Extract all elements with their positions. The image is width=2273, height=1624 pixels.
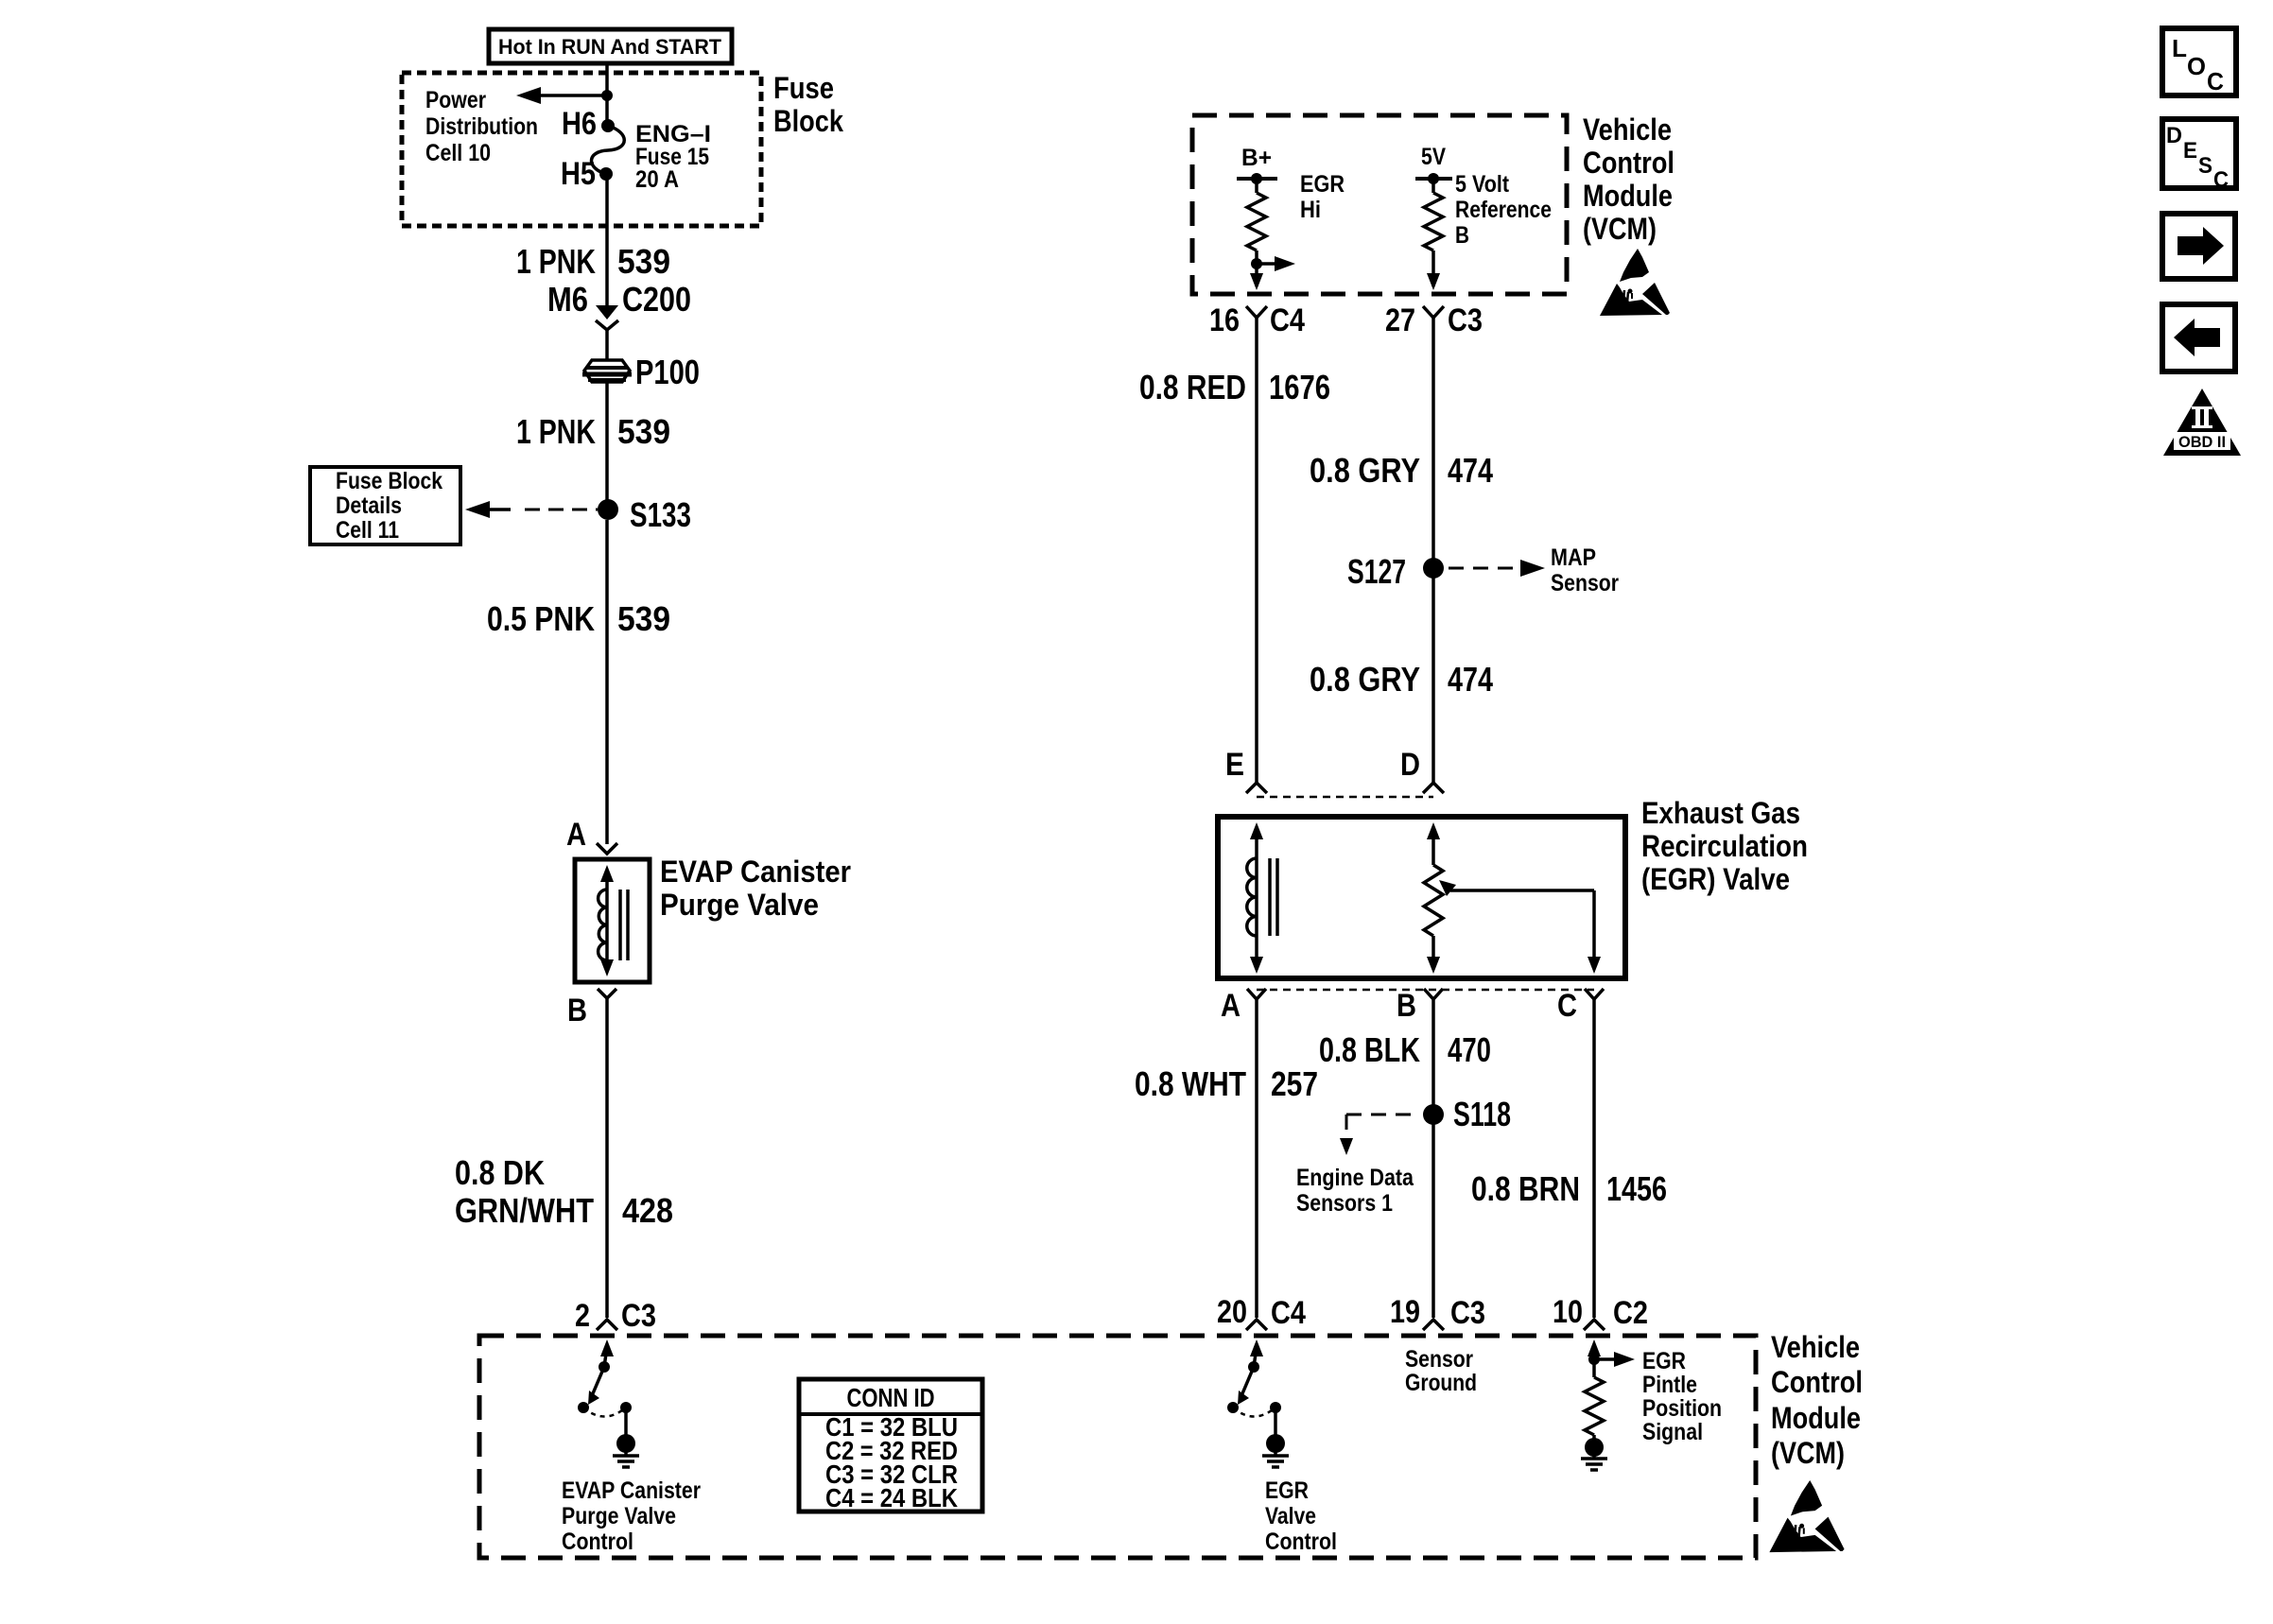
svg-text:(EGR) Valve: (EGR) Valve bbox=[1641, 862, 1790, 896]
svg-text:20 A: 20 A bbox=[635, 166, 679, 193]
svg-text:539: 539 bbox=[617, 412, 670, 451]
wire: C200 to grommet P100 bbox=[605, 330, 609, 362]
svg-text:Purge Valve: Purge Valve bbox=[562, 1503, 676, 1529]
wire: EGR C to VCM 10 bbox=[1592, 999, 1596, 1318]
svg-text:OBD II: OBD II bbox=[2178, 433, 2226, 451]
svg-text:0.8 RED: 0.8 RED bbox=[1139, 368, 1246, 406]
EGR valve box bbox=[1218, 817, 1625, 978]
svg-text:(VCM): (VCM) bbox=[1771, 1436, 1845, 1470]
ESD sensitivity icon (top) bbox=[1620, 249, 1649, 282]
svg-text:EGR: EGR bbox=[1300, 171, 1345, 198]
svg-text:Fuse Block: Fuse Block bbox=[336, 468, 442, 494]
svg-text:Hot In RUN And START: Hot In RUN And START bbox=[498, 35, 722, 59]
svg-text:5 Volt: 5 Volt bbox=[1455, 171, 1510, 198]
svg-text:20: 20 bbox=[1217, 1294, 1247, 1330]
icon: previous arrow button bbox=[2162, 304, 2235, 371]
svg-text:Engine Data: Engine Data bbox=[1296, 1165, 1414, 1191]
svg-text:Sensor: Sensor bbox=[1405, 1346, 1473, 1373]
driver switch: EGR valve control bbox=[1250, 1339, 1263, 1356]
svg-text:Details: Details bbox=[336, 492, 402, 519]
branch arrow to power distribution bbox=[535, 94, 607, 97]
svg-text:Module: Module bbox=[1583, 179, 1673, 213]
svg-text:1676: 1676 bbox=[1269, 368, 1330, 406]
svg-text:5V: 5V bbox=[1421, 144, 1446, 170]
svg-text:539: 539 bbox=[617, 242, 670, 281]
svg-text:0.8 DK: 0.8 DK bbox=[455, 1153, 545, 1192]
splice S133 bbox=[598, 499, 618, 520]
svg-text:Sensors 1: Sensors 1 bbox=[1296, 1190, 1393, 1217]
svg-text:(VCM): (VCM) bbox=[1583, 212, 1657, 246]
svg-text:Vehicle: Vehicle bbox=[1583, 112, 1672, 147]
svg-text:0.8 WHT: 0.8 WHT bbox=[1135, 1064, 1246, 1103]
driver switch: EVAP canister purge valve control bbox=[600, 1339, 614, 1356]
svg-text:O: O bbox=[2187, 52, 2206, 80]
harness connector dashed line E-D bbox=[1257, 796, 1433, 799]
svg-text:Distribution: Distribution bbox=[425, 113, 538, 140]
svg-text:Control: Control bbox=[1265, 1529, 1337, 1555]
icon: OBD II triangle bbox=[2163, 389, 2241, 456]
svg-text:Control: Control bbox=[1771, 1365, 1863, 1399]
svg-text:Exhaust Gas: Exhaust Gas bbox=[1641, 796, 1800, 830]
svg-text:MAP: MAP bbox=[1551, 544, 1596, 571]
svg-text:S133: S133 bbox=[630, 495, 691, 534]
svg-text:470: 470 bbox=[1448, 1030, 1491, 1069]
svg-text:Signal: Signal bbox=[1642, 1419, 1703, 1445]
solenoid coil (EVAP purge valve) bbox=[600, 865, 614, 882]
dashed reference arrow to fuse block details bbox=[525, 509, 598, 511]
svg-text:H6: H6 bbox=[562, 106, 597, 142]
potentiometer (EGR pintle position) bbox=[1427, 822, 1440, 839]
svg-text:Valve: Valve bbox=[1265, 1503, 1316, 1529]
svg-text:GRN/WHT: GRN/WHT bbox=[455, 1191, 594, 1230]
svg-text:Sensor: Sensor bbox=[1551, 570, 1619, 596]
solenoid coil (EGR valve) bbox=[1250, 822, 1263, 839]
svg-text:Control: Control bbox=[1583, 146, 1674, 180]
svg-text:C: C bbox=[2213, 167, 2229, 193]
VCM top box (dashed) bbox=[1192, 115, 1567, 294]
wire: EGR A to VCM 20 bbox=[1255, 999, 1258, 1318]
svg-text:C3: C3 bbox=[1450, 1295, 1485, 1331]
wire: VCM 16 to EGR pin E bbox=[1255, 318, 1258, 783]
pin 16 C4 of VCM bbox=[1246, 306, 1267, 318]
icon: next arrow button bbox=[2162, 214, 2235, 279]
svg-text:L: L bbox=[2172, 34, 2187, 62]
svg-text:Block: Block bbox=[773, 104, 843, 138]
svg-text:CONN ID: CONN ID bbox=[847, 1383, 935, 1412]
internal node w/ branch arrow (EGR Hi) bbox=[1255, 251, 1258, 286]
EGR pintle position signal input (resistor to ground) bbox=[1588, 1339, 1601, 1356]
svg-text:1 PNK: 1 PNK bbox=[516, 412, 596, 451]
svg-text:S: S bbox=[2198, 153, 2212, 179]
svg-text:0.5 PNK: 0.5 PNK bbox=[487, 599, 595, 638]
wire: H5 to connector C200 bbox=[605, 174, 609, 306]
icon: DESC button bbox=[2162, 119, 2236, 188]
svg-text:C2: C2 bbox=[1613, 1295, 1648, 1331]
svg-text:EGR: EGR bbox=[1265, 1477, 1309, 1504]
svg-text:0.8 BRN: 0.8 BRN bbox=[1471, 1169, 1580, 1208]
svg-text:Hi: Hi bbox=[1300, 197, 1321, 223]
icon: LOC button bbox=[2162, 28, 2236, 95]
svg-text:C4: C4 bbox=[1271, 1295, 1306, 1331]
svg-text:Cell 11: Cell 11 bbox=[336, 517, 399, 544]
svg-text:S127: S127 bbox=[1347, 552, 1406, 591]
svg-text:Module: Module bbox=[1771, 1401, 1861, 1435]
svg-text:C3: C3 bbox=[621, 1298, 656, 1334]
svg-text:EGR: EGR bbox=[1642, 1348, 1686, 1374]
svg-text:M6: M6 bbox=[547, 280, 588, 319]
svg-text:B+: B+ bbox=[1241, 145, 1272, 171]
svg-text:C200: C200 bbox=[622, 280, 691, 319]
svg-text:Ground: Ground bbox=[1405, 1370, 1477, 1396]
VCM bottom box (dashed) bbox=[479, 1336, 1756, 1558]
svg-text:19: 19 bbox=[1390, 1294, 1420, 1330]
svg-text:EVAP Canister: EVAP Canister bbox=[660, 855, 851, 889]
svg-text:Recirculation: Recirculation bbox=[1641, 829, 1808, 863]
pot wiper to pin C bbox=[1439, 880, 1456, 896]
wire: VCM 27 to EGR pin D bbox=[1431, 318, 1435, 783]
svg-text:D: D bbox=[1400, 747, 1420, 783]
svg-text:428: 428 bbox=[622, 1191, 673, 1230]
svg-text:Vehicle: Vehicle bbox=[1771, 1330, 1860, 1364]
svg-text:10: 10 bbox=[1553, 1294, 1583, 1330]
terminal H6 bbox=[601, 119, 615, 132]
svg-text:Purge Valve: Purge Valve bbox=[660, 888, 819, 922]
svg-text:16: 16 bbox=[1209, 302, 1240, 338]
harness connector dashed line A-B-C bbox=[1257, 989, 1594, 992]
svg-text:B: B bbox=[567, 993, 587, 1028]
grommet P100 bbox=[584, 360, 630, 382]
svg-text:Fuse: Fuse bbox=[773, 71, 834, 105]
svg-text:P100: P100 bbox=[635, 353, 700, 391]
splice S118 w/ reference arrow to engine data sensors bbox=[1423, 1104, 1444, 1125]
svg-text:C4 = 24 BLK: C4 = 24 BLK bbox=[825, 1483, 958, 1512]
svg-text:0.8 GRY: 0.8 GRY bbox=[1310, 451, 1420, 490]
svg-text:A: A bbox=[566, 817, 586, 853]
svg-text:0.8 BLK: 0.8 BLK bbox=[1319, 1030, 1420, 1069]
svg-text:B: B bbox=[1397, 988, 1416, 1024]
svg-text:2: 2 bbox=[575, 1298, 590, 1334]
svg-text:H5: H5 bbox=[561, 156, 596, 192]
wire: EGR B to VCM 19 bbox=[1431, 999, 1435, 1318]
svg-text:0.8 GRY: 0.8 GRY bbox=[1310, 660, 1420, 699]
svg-text:E: E bbox=[2183, 138, 2197, 164]
power feed label box "Hot In RUN And START" bbox=[489, 29, 732, 63]
svg-text:C3: C3 bbox=[1448, 302, 1483, 338]
resistor: 5 volt reference B bbox=[1431, 179, 1435, 193]
fuse ENG-I Fuse 15 20 A bbox=[591, 126, 624, 174]
svg-text:Pintle: Pintle bbox=[1642, 1372, 1697, 1398]
svg-text:C: C bbox=[2207, 67, 2224, 95]
wire: S133 to EVAP valve pin A bbox=[605, 520, 609, 844]
svg-text:E: E bbox=[1225, 747, 1244, 783]
reference box: Fuse Block Details Cell 11 bbox=[310, 467, 460, 544]
svg-text:474: 474 bbox=[1448, 451, 1493, 490]
wire: EVAP valve pin B to VCM pin 2 bbox=[605, 998, 609, 1318]
svg-text:1 PNK: 1 PNK bbox=[516, 242, 596, 281]
svg-text:Cell 10: Cell 10 bbox=[425, 140, 491, 166]
terminal H5 bbox=[599, 167, 613, 181]
svg-text:1456: 1456 bbox=[1606, 1169, 1667, 1208]
splice S127 w/ reference arrow to MAP sensor bbox=[1423, 558, 1444, 579]
wire: feed box to fuse H6 bbox=[605, 63, 609, 121]
svg-text:EVAP Canister: EVAP Canister bbox=[562, 1477, 701, 1504]
ESD sensitivity icon (bottom) bbox=[1791, 1480, 1822, 1516]
fuse block box (dashed) bbox=[402, 73, 761, 226]
svg-text:Reference: Reference bbox=[1455, 197, 1552, 223]
svg-text:539: 539 bbox=[617, 599, 670, 638]
pin 27 C3 of VCM bbox=[1423, 306, 1444, 318]
svg-text:Position: Position bbox=[1642, 1395, 1722, 1422]
EVAP canister purge valve box bbox=[575, 859, 650, 982]
svg-text:Power: Power bbox=[425, 87, 486, 113]
svg-text:D: D bbox=[2166, 123, 2182, 148]
svg-text:C: C bbox=[1557, 988, 1577, 1024]
svg-text:S118: S118 bbox=[1453, 1095, 1511, 1133]
wire: P100 to splice S133 bbox=[605, 382, 609, 510]
svg-text:B: B bbox=[1455, 222, 1469, 249]
svg-text:Control: Control bbox=[562, 1529, 633, 1555]
svg-text:257: 257 bbox=[1271, 1064, 1318, 1103]
svg-text:A: A bbox=[1221, 988, 1241, 1024]
svg-text:C4: C4 bbox=[1270, 302, 1305, 338]
resistor: EGR Hi driver bbox=[1255, 179, 1258, 193]
svg-text:27: 27 bbox=[1385, 302, 1415, 338]
CONN ID table bbox=[799, 1379, 982, 1512]
svg-text:474: 474 bbox=[1448, 660, 1493, 699]
